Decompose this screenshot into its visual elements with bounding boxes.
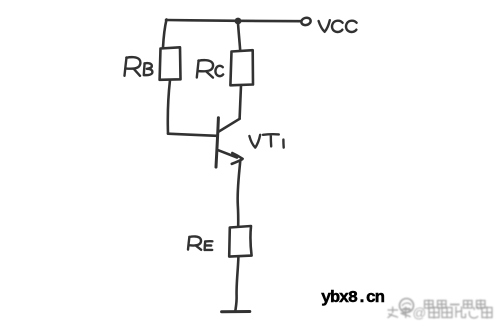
resistor RC xyxy=(230,50,253,85)
svg-text:@: @ xyxy=(413,306,427,321)
label VCC letter C2 xyxy=(346,21,357,32)
transistor Q1 emitter arrowhead xyxy=(232,153,243,164)
ground bar xyxy=(222,310,250,313)
watermark line2 char 色 xyxy=(442,308,452,318)
label RB letter R xyxy=(125,57,141,76)
label RB letter B xyxy=(144,63,153,75)
label VT1 letter V xyxy=(249,135,260,148)
wire top rail VCC xyxy=(166,20,302,21)
watermark grey toutiao logo + text xyxy=(388,299,493,321)
watermark line1 char 通 xyxy=(477,300,486,310)
wire base horizontal xyxy=(168,134,217,136)
wire emitter down to RE xyxy=(238,161,241,227)
node junction at RC/VCC rail xyxy=(235,18,242,25)
label VT1 subscript 1 xyxy=(282,140,285,148)
transistor Q1 collector diagonal xyxy=(218,119,239,132)
label VCC letter V xyxy=(319,20,330,32)
watermark line2 char 情 xyxy=(482,307,492,319)
wire junction to RC top xyxy=(238,23,240,51)
VCC terminal circle xyxy=(301,17,312,26)
watermark line2 char 条 xyxy=(401,307,412,319)
resistor RB xyxy=(160,47,181,80)
watermark line2 char 比 xyxy=(456,307,466,318)
watermark line1 char 点 xyxy=(464,301,473,309)
label VCC letter C1 xyxy=(332,21,343,32)
watermark line1 char 一 xyxy=(450,304,460,306)
watermark line1 char 路 xyxy=(438,301,447,309)
label VT1 letter T xyxy=(263,134,279,146)
label RE letter R xyxy=(188,236,201,249)
resistor RE xyxy=(229,226,251,257)
label RC letter R xyxy=(197,60,213,77)
label RE letter E xyxy=(205,241,213,250)
watermark line2 char 头 xyxy=(388,307,399,318)
watermark logo circle xyxy=(400,299,414,313)
transistor Q1 base bar xyxy=(216,118,218,167)
watermark line1 char 电 xyxy=(425,300,434,310)
wire RC bottom to collector xyxy=(240,86,241,119)
label RC letter C xyxy=(215,66,223,76)
wire RE bottom to ground xyxy=(235,257,238,311)
wire left drop to RB xyxy=(163,20,167,48)
wire RB bottom to base corner xyxy=(168,80,170,134)
watermark line2 char 心 xyxy=(469,307,478,319)
svg-text:ybx8.cn: ybx8.cn xyxy=(321,289,385,308)
transistor Q1 emitter diagonal xyxy=(217,150,237,158)
watermark line2 char 绿 xyxy=(429,307,439,319)
